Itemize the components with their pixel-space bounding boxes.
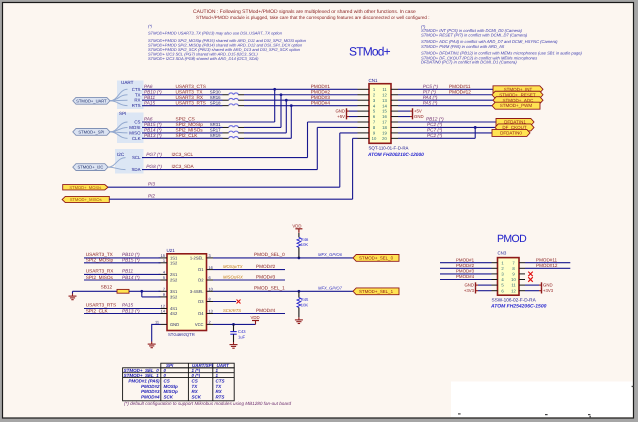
svg-text:SPI2_MISOs: SPI2_MISOs bbox=[86, 275, 114, 280]
svg-text:TX: TX bbox=[216, 384, 223, 389]
svg-text:3: 3 bbox=[209, 253, 211, 258]
svg-text:11: 11 bbox=[511, 283, 516, 288]
svg-text:ATOM FH200210C-12000: ATOM FH200210C-12000 bbox=[367, 152, 424, 158]
svg-text:CN1: CN1 bbox=[369, 78, 378, 83]
svg-text:STMOD+ PWM (PA5) in conflict w: STMOD+ PWM (PA5) in conflict with ARD_A5 bbox=[421, 44, 505, 49]
flag STMOD+_UART bbox=[73, 97, 110, 104]
svg-text:8: 8 bbox=[209, 297, 211, 302]
svg-text:PMOD#2: PMOD#2 bbox=[456, 263, 475, 268]
flag STMOD+_ADC bbox=[493, 97, 543, 104]
svg-text:5: 5 bbox=[163, 275, 165, 280]
U21 right pin stubs bbox=[207, 253, 214, 325]
svg-text:STMod+/PMOD module is plugged,: STMod+/PMOD module is plugged, take care… bbox=[196, 15, 430, 20]
svg-text:SPI: SPI bbox=[119, 111, 126, 116]
svg-text:SCK: SCK bbox=[192, 394, 202, 399]
svg-text:MOSIp/TX: MOSIp/TX bbox=[223, 264, 243, 269]
svg-text:MOSIp: MOSIp bbox=[164, 384, 179, 389]
wire PI2 MISOs row to CN1 pin10 bbox=[109, 138, 357, 199]
svg-text:RTS: RTS bbox=[216, 394, 225, 399]
svg-text:SPI2_MISOs: SPI2_MISOs bbox=[176, 128, 204, 133]
svg-text:1uF: 1uF bbox=[238, 335, 246, 340]
svg-text:PB15 (*): PB15 (*) bbox=[122, 258, 140, 263]
svg-text:D4: D4 bbox=[198, 311, 204, 316]
svg-text:SR30: SR30 bbox=[210, 89, 221, 94]
svg-text:SCL: SCL bbox=[132, 155, 141, 160]
svg-text:STMOD+PMOD USART3_TX (PB13) ma: STMOD+PMOD USART3_TX (PB13) may also use… bbox=[148, 31, 283, 36]
svg-text:MFX_GPIO7: MFX_GPIO7 bbox=[318, 285, 343, 290]
svg-text:STMOD+_UART: STMOD+_UART bbox=[76, 98, 107, 103]
wire PMOD#11 from CN3 pin7 bbox=[525, 257, 570, 262]
SPI group background bbox=[117, 113, 144, 144]
ground under C43 bbox=[230, 342, 238, 348]
svg-text:SCK: SCK bbox=[164, 394, 174, 399]
flag STMOD+_SPI bbox=[73, 129, 110, 136]
wire DF_CKOUT from pin18 bbox=[398, 122, 495, 127]
svg-text:15: 15 bbox=[382, 109, 387, 114]
svg-text:PA5 (*): PA5 (*) bbox=[423, 100, 438, 105]
power port GND CN1 pin5 bbox=[335, 108, 357, 114]
svg-text:18: 18 bbox=[382, 125, 387, 130]
svg-text:(*) default configuration to s: (*) default configuration to support Mik… bbox=[124, 401, 291, 406]
resistor R46 bbox=[297, 233, 309, 258]
wire USART3_RTS row with SR18 bridge bbox=[142, 100, 358, 105]
wire CTS-CS tie vertical bbox=[273, 88, 276, 122]
svg-text:PMOD#3: PMOD#3 bbox=[311, 95, 331, 100]
svg-text:GND: GND bbox=[335, 109, 345, 114]
flag STMOD+_I2C bbox=[73, 164, 108, 171]
svg-text:RX: RX bbox=[192, 389, 199, 394]
flag DFDATIN0 bbox=[492, 129, 530, 136]
svg-text:I2C: I2C bbox=[117, 152, 125, 157]
svg-text:1: 1 bbox=[163, 258, 165, 263]
svg-text:14: 14 bbox=[382, 103, 387, 108]
svg-text:SR18: SR18 bbox=[210, 100, 221, 105]
svg-text:MISOp: MISOp bbox=[164, 389, 179, 394]
wire TX-MOSI tie vertical bbox=[280, 93, 283, 127]
no-connect X on D3 bbox=[213, 300, 241, 304]
ground under R45 bbox=[295, 317, 303, 323]
svg-text:SQT-110-01-F-D-RA: SQT-110-01-F-D-RA bbox=[369, 146, 409, 151]
svg-text:STMOD+ I2C3 SDA (PG8) shared w: STMOD+ I2C3 SDA (PG8) shared with ARD_D1… bbox=[148, 56, 259, 61]
svg-text:ATOM FH254206C-1500: ATOM FH254206C-1500 bbox=[490, 303, 547, 309]
svg-text:PMOD#4: PMOD#4 bbox=[311, 100, 331, 105]
svg-text:4S2: 4S2 bbox=[170, 311, 178, 316]
svg-text:2S2: 2S2 bbox=[170, 278, 178, 283]
svg-text:PB13 (*): PB13 (*) bbox=[144, 133, 162, 138]
wire I2C3_SDA row to CN1 pin8 bbox=[142, 127, 358, 169]
svg-text:PC7 (*): PC7 (*) bbox=[427, 128, 443, 133]
svg-text:20: 20 bbox=[382, 136, 387, 141]
ground under U21 bbox=[148, 342, 156, 348]
wire PMOD_SEL_0 from 1-2SEL bbox=[213, 252, 353, 259]
wire USART3_TX row with SR30 bridge bbox=[142, 89, 358, 94]
no-connect X on CN3 pin9 bbox=[528, 272, 533, 277]
wire SPI2_CLK to U21 4S2 bbox=[84, 308, 161, 313]
wire SPI2_CS row bbox=[142, 117, 275, 122]
svg-text:SPI2_MOSIp: SPI2_MOSIp bbox=[176, 122, 204, 127]
wire RX-MISO tie vertical bbox=[285, 99, 288, 133]
wire USART3_RX to U21 2S1 bbox=[84, 268, 161, 274]
svg-text:PB12 (*): PB12 (*) bbox=[426, 117, 444, 122]
svg-text:10K: 10K bbox=[301, 302, 309, 307]
bus entry I2C bbox=[108, 158, 126, 170]
svg-text:10: 10 bbox=[511, 277, 516, 282]
svg-text:16: 16 bbox=[209, 265, 213, 270]
svg-text:D1: D1 bbox=[198, 267, 204, 272]
wire PI3 MOSIs row to CN1 pin9 bbox=[108, 133, 358, 187]
svg-text:PB14 (*): PB14 (*) bbox=[122, 275, 140, 280]
note right (*) list bbox=[421, 24, 583, 65]
svg-text:RX: RX bbox=[216, 389, 223, 394]
wire DFDATIN1 from pin17 bbox=[398, 117, 496, 122]
svg-text:3S1: 3S1 bbox=[170, 289, 178, 294]
svg-text:PG7 (*): PG7 (*) bbox=[146, 152, 162, 157]
wire SPI2_MOSIp row with SR31 bridge bbox=[142, 122, 281, 127]
title block white area bbox=[451, 382, 633, 418]
svg-text:+5V: +5V bbox=[414, 109, 422, 114]
U21 left pin stubs bbox=[159, 253, 168, 314]
svg-text:7: 7 bbox=[163, 287, 165, 292]
svg-text:13: 13 bbox=[382, 98, 387, 103]
svg-text:2: 2 bbox=[209, 320, 211, 325]
wire PMOD#3 to CN3 pin3 bbox=[440, 269, 492, 274]
svg-text:PB11: PB11 bbox=[144, 95, 156, 100]
svg-text:RTS: RTS bbox=[132, 103, 141, 108]
svg-text:MOSI: MOSI bbox=[129, 125, 140, 130]
op-amp U21 analog switch STG4692 bbox=[167, 248, 207, 337]
power VDD at U21 VCC bbox=[251, 315, 260, 321]
svg-text:I2C3_SDA: I2C3_SDA bbox=[172, 164, 195, 169]
svg-text:17: 17 bbox=[382, 120, 387, 125]
wire SPI2_MISOs to U21 2S2 bbox=[84, 275, 161, 280]
svg-text:PA6: PA6 bbox=[144, 84, 153, 89]
svg-text:PC2 (*): PC2 (*) bbox=[427, 122, 443, 127]
svg-text:STMOD+_SPI: STMOD+_SPI bbox=[78, 129, 104, 134]
UART group background bbox=[117, 81, 144, 110]
bus entry SPI bbox=[110, 122, 128, 138]
svg-text:PMOD#1: PMOD#1 bbox=[311, 84, 331, 89]
svg-text:PB14 (*): PB14 (*) bbox=[144, 128, 162, 133]
capacitor C43 bbox=[230, 324, 246, 342]
svg-text:U21: U21 bbox=[167, 248, 176, 253]
flag DF_CKOUT bbox=[495, 124, 534, 131]
svg-text:MFX_GPIO6: MFX_GPIO6 bbox=[318, 252, 343, 257]
svg-text:PMOD_SEL_1: PMOD_SEL_1 bbox=[254, 285, 285, 290]
svg-text:PMOD#4: PMOD#4 bbox=[141, 394, 160, 399]
svg-text:GND: GND bbox=[170, 322, 179, 327]
svg-text:USART3_TX: USART3_TX bbox=[86, 252, 114, 257]
wire SCK/RTS PMOD#4 from D4 bbox=[213, 308, 285, 314]
wire VCC to VDD bbox=[213, 321, 256, 326]
flag STMOD+_MOSIs bbox=[63, 185, 108, 190]
svg-text:STMOD+_MISOs: STMOD+_MISOs bbox=[70, 197, 102, 202]
svg-text:+3V3: +3V3 bbox=[543, 288, 554, 293]
svg-text:STMOD+_SEL_1: STMOD+_SEL_1 bbox=[124, 373, 160, 378]
svg-text:USART3_RX: USART3_RX bbox=[86, 268, 114, 273]
svg-text:DFDATIN0 (PC7) in conflict wit: DFDATIN0 (PC7) in conflict with DCMI_D1 … bbox=[421, 60, 517, 65]
svg-text:SPI2_CLK: SPI2_CLK bbox=[86, 308, 109, 313]
svg-text:PMOD#12: PMOD#12 bbox=[536, 263, 558, 268]
svg-text:UART: UART bbox=[217, 363, 231, 368]
power port +3V3 CN3 pin12 bbox=[525, 288, 554, 294]
wire MOSIp/TX PMOD#2 from D1 bbox=[213, 264, 285, 270]
note left (*) list bbox=[148, 24, 307, 62]
svg-text:SPI2_CS: SPI2_CS bbox=[176, 117, 195, 122]
svg-text:STMOD+_I2C: STMOD+_I2C bbox=[77, 165, 103, 170]
svg-text:SSW-106-02-F-D-RA: SSW-106-02-F-D-RA bbox=[492, 297, 537, 302]
flag DFDATIN1 bbox=[496, 119, 534, 126]
svg-text:PC2 (*): PC2 (*) bbox=[427, 133, 443, 138]
wire MISOs/RX PMOD#3 from D2 bbox=[213, 274, 285, 280]
svg-text:PMOD#4: PMOD#4 bbox=[456, 274, 475, 279]
svg-text:9: 9 bbox=[163, 292, 165, 297]
svg-text:MISOs/RX: MISOs/RX bbox=[223, 274, 243, 279]
svg-text:PMOD#1: PMOD#1 bbox=[456, 257, 475, 262]
svg-text:SR19: SR19 bbox=[210, 133, 221, 138]
wire PC2 pin20 tie to pin18 net bbox=[398, 126, 477, 138]
connector CN1 bbox=[358, 78, 425, 158]
wire RTS-CLK tie vertical bbox=[290, 104, 293, 138]
svg-text:GND: GND bbox=[464, 283, 474, 288]
power port +5V CN1 pin6 bbox=[337, 114, 357, 120]
wire STMOD+_RESET from pin12 bbox=[398, 89, 492, 94]
svg-text:CTS: CTS bbox=[132, 87, 141, 92]
svg-text:PB10 (*): PB10 (*) bbox=[122, 252, 140, 257]
svg-text:USART3_RX: USART3_RX bbox=[176, 95, 204, 100]
svg-text:(*): (*) bbox=[148, 24, 153, 29]
power port GND CN3 pin5 bbox=[464, 282, 491, 288]
power port GND CN1 pin16 bbox=[398, 114, 424, 120]
svg-text:UART: UART bbox=[121, 80, 134, 85]
configuration table bbox=[123, 363, 235, 401]
svg-text:PI7 (*): PI7 (*) bbox=[423, 89, 437, 94]
svg-text:PMOD#1 (PA6): PMOD#1 (PA6) bbox=[128, 379, 160, 384]
svg-text:+3V3: +3V3 bbox=[464, 288, 475, 293]
wire I2C3_SCL row to CN1 pin7 bbox=[142, 122, 358, 158]
svg-text:6: 6 bbox=[209, 275, 211, 280]
svg-text:MISO: MISO bbox=[129, 130, 141, 135]
I2C group background bbox=[115, 149, 144, 174]
svg-text:PA6: PA6 bbox=[144, 117, 153, 122]
svg-text:10: 10 bbox=[372, 136, 377, 141]
svg-text:STMod+: STMod+ bbox=[349, 44, 391, 58]
svg-text:3-4SEL: 3-4SEL bbox=[190, 289, 204, 294]
svg-text:11: 11 bbox=[382, 87, 387, 92]
svg-text:0 (*): 0 (*) bbox=[192, 373, 201, 378]
wire PMOD#4 to CN3 pin4 bbox=[440, 274, 492, 279]
svg-text:I2C3_SCL: I2C3_SCL bbox=[172, 152, 194, 157]
wire STMOD+_PWM from pin14 bbox=[398, 100, 492, 105]
svg-text:PMOD#3: PMOD#3 bbox=[141, 389, 160, 394]
svg-text:D3: D3 bbox=[198, 299, 204, 304]
svg-text:PMOD#11: PMOD#11 bbox=[536, 257, 558, 262]
wire USART3_RX row with SR16 bridge bbox=[142, 95, 358, 100]
svg-text:PMOD_SEL_0: PMOD_SEL_0 bbox=[254, 252, 285, 257]
svg-text:CLK: CLK bbox=[132, 136, 141, 141]
svg-text:3S2: 3S2 bbox=[170, 295, 178, 300]
svg-text:PMOD#11: PMOD#11 bbox=[449, 84, 471, 89]
svg-text:GND: GND bbox=[414, 114, 424, 119]
svg-text:PI3: PI3 bbox=[148, 182, 155, 187]
wire USART3_TX to U21 1S1 bbox=[84, 252, 161, 258]
svg-text:STMOD+ RESET (PI7) in conflict: STMOD+ RESET (PI7) in conflict with DCMI… bbox=[421, 33, 528, 38]
svg-text:13: 13 bbox=[209, 309, 213, 314]
bus entry UART bbox=[110, 89, 128, 105]
svg-text:1S2: 1S2 bbox=[170, 260, 178, 265]
resistor R45 bbox=[297, 291, 309, 317]
svg-text:PMOD: PMOD bbox=[497, 233, 527, 245]
flag STMOD+_RESET bbox=[492, 91, 543, 98]
svg-text:TX: TX bbox=[135, 92, 141, 97]
svg-text:STG4692QTR: STG4692QTR bbox=[168, 332, 195, 337]
svg-text:12: 12 bbox=[511, 288, 516, 293]
flag STMOD+_SEL_0 bbox=[353, 255, 399, 262]
svg-text:PMOD#2: PMOD#2 bbox=[141, 384, 160, 389]
svg-text:CS: CS bbox=[192, 379, 198, 384]
svg-text:PB11: PB11 bbox=[122, 268, 134, 273]
svg-text:+5V: +5V bbox=[337, 114, 345, 119]
svg-text:SDA: SDA bbox=[131, 167, 140, 172]
svg-text:PA4 (*): PA4 (*) bbox=[423, 95, 438, 100]
wire PMOD#1 to CN3 pin1 bbox=[440, 257, 492, 262]
svg-text:USART3_CTS: USART3_CTS bbox=[176, 84, 206, 89]
svg-text:DFDATIN0: DFDATIN0 bbox=[500, 130, 522, 135]
svg-text:SB12: SB12 bbox=[101, 285, 113, 290]
svg-text:PMOD#3: PMOD#3 bbox=[456, 269, 475, 274]
svg-text:STMOD+_MOSIs: STMOD+_MOSIs bbox=[69, 185, 101, 190]
wire SB12 to U21 3S1 and 3S2 bbox=[129, 290, 161, 297]
svg-text:2S1: 2S1 bbox=[170, 272, 178, 277]
svg-text:PI2: PI2 bbox=[148, 194, 155, 199]
svg-text:STMOD+_PWM: STMOD+_PWM bbox=[500, 103, 533, 108]
flag STMOD+_MISOs bbox=[62, 196, 109, 202]
svg-text:19: 19 bbox=[382, 131, 387, 136]
svg-text:PC5 (*): PC5 (*) bbox=[423, 84, 439, 89]
svg-text:CTS: CTS bbox=[216, 379, 225, 384]
wire PMOD#12 from CN3 pin8 bbox=[525, 263, 570, 268]
svg-text:PMOD#2: PMOD#2 bbox=[256, 264, 276, 269]
svg-text:PMOD#2: PMOD#2 bbox=[311, 89, 331, 94]
svg-text:PA15: PA15 bbox=[144, 100, 156, 105]
power port GND CN3 pin11 bbox=[525, 282, 553, 288]
connector CN3 bbox=[490, 250, 547, 309]
svg-text:PB15 (*): PB15 (*) bbox=[144, 122, 162, 127]
wire SPI2_CLK row with SR19 bridge bbox=[142, 133, 291, 138]
power port +3V3 CN3 pin6 bbox=[464, 288, 492, 294]
svg-text:PG8 (*): PG8 (*) bbox=[146, 164, 162, 169]
wire USART3_RTS to U21 4S1 bbox=[84, 303, 161, 309]
wire USART3_CTS row bbox=[142, 84, 358, 89]
svg-text:RX: RX bbox=[134, 98, 140, 103]
svg-text:12: 12 bbox=[382, 92, 387, 97]
svg-text:1-2SEL: 1-2SEL bbox=[190, 256, 204, 261]
svg-text:CS: CS bbox=[134, 120, 140, 125]
svg-text:SR17: SR17 bbox=[210, 128, 221, 133]
svg-text:STMOD+_SEL_0: STMOD+_SEL_0 bbox=[359, 255, 394, 260]
flag STMOD+_SEL_1 bbox=[353, 288, 399, 295]
wire STMOD+_ADC from pin13 bbox=[398, 95, 493, 100]
svg-text:10K: 10K bbox=[301, 242, 309, 247]
svg-text:USART3_RTS: USART3_RTS bbox=[176, 100, 206, 105]
svg-text:PMOD#3: PMOD#3 bbox=[256, 274, 276, 279]
svg-text:TX: TX bbox=[192, 384, 199, 389]
svg-text:PMOD#12: PMOD#12 bbox=[449, 89, 471, 94]
svg-text:SCK/RTS: SCK/RTS bbox=[223, 308, 241, 313]
flag STMOD+_PWM bbox=[492, 102, 540, 109]
svg-text:SR16: SR16 bbox=[210, 95, 221, 100]
ground at SB12 bbox=[69, 291, 77, 299]
svg-text:USART3_RTS: USART3_RTS bbox=[86, 303, 116, 308]
U21 GND pin wire bbox=[152, 320, 167, 342]
svg-text:STMOD+_SEL_1: STMOD+_SEL_1 bbox=[359, 289, 394, 294]
wire SPI2_MISOs row with SR17 bridge bbox=[142, 128, 286, 133]
power VDD above R46 bbox=[292, 224, 302, 233]
svg-text:CN3: CN3 bbox=[498, 250, 507, 255]
svg-text:USART3_TX: USART3_TX bbox=[176, 89, 204, 94]
svg-text:GND: GND bbox=[543, 283, 553, 288]
svg-text:PMOD#4: PMOD#4 bbox=[256, 308, 276, 313]
caution note bbox=[193, 9, 430, 20]
solder bridge SB12 bbox=[73, 285, 130, 293]
svg-text:D2: D2 bbox=[198, 278, 204, 283]
svg-text:PA15: PA15 bbox=[122, 303, 134, 308]
svg-text:PB10 (*): PB10 (*) bbox=[144, 89, 162, 94]
svg-text:SPI: SPI bbox=[166, 363, 174, 368]
svg-text:SPI2_MOSIp: SPI2_MOSIp bbox=[86, 258, 114, 263]
svg-text:CS: CS bbox=[164, 379, 170, 384]
svg-text:CAUTION : Following STMod+/PMO: CAUTION : Following STMod+/PMOD signals … bbox=[193, 9, 416, 15]
svg-text:VCC: VCC bbox=[195, 322, 204, 327]
wire SPI2_MOSIp to U21 1S2 bbox=[84, 258, 161, 263]
no-connect X on CN3 pin10 bbox=[528, 277, 533, 282]
svg-text:VDD: VDD bbox=[292, 224, 301, 229]
wire STMOD+_INT from pin11 bbox=[398, 84, 493, 89]
wire PMOD#2 to CN3 pin2 bbox=[440, 263, 492, 268]
svg-text:SR31: SR31 bbox=[210, 122, 221, 127]
svg-text:VDD: VDD bbox=[251, 315, 260, 320]
flag STMOD+_INT bbox=[493, 86, 543, 93]
svg-text:PB13 (*): PB13 (*) bbox=[122, 308, 140, 313]
wire DFDATIN0 from pin19 bbox=[398, 128, 492, 133]
svg-text:C43: C43 bbox=[238, 329, 246, 334]
svg-text:SPI2_CLK: SPI2_CLK bbox=[176, 133, 199, 138]
power port +5V CN1 pin15 bbox=[398, 108, 422, 114]
svg-text:16: 16 bbox=[382, 114, 387, 119]
wire PMOD_SEL_1 from 3-4SEL bbox=[213, 285, 353, 292]
